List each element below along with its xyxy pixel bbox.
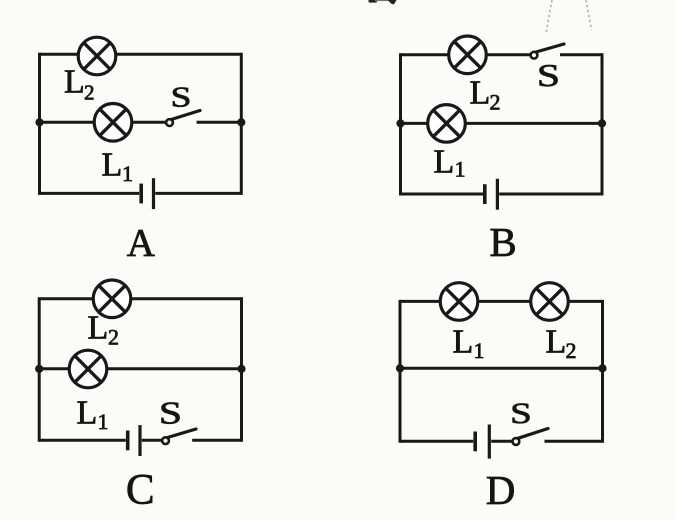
svg-text:1: 1 [98, 409, 109, 434]
switch S (A) lever [172, 111, 201, 120]
label L1 (B) [434, 144, 466, 182]
switch S (B) lever [536, 44, 564, 52]
label L1 (D) [453, 324, 485, 364]
node D-right junction [598, 364, 606, 372]
battery (B) negative plate (short) [483, 184, 487, 204]
circuit C top wire [39, 297, 241, 300]
battery (A) positive plate (long) [152, 178, 155, 209]
svg-text:S: S [171, 81, 192, 113]
svg-text:1: 1 [474, 338, 485, 363]
circuit C bottom wire mid segment [142, 439, 162, 442]
lamp L1 (C) [69, 350, 107, 388]
svg-text:B: B [489, 219, 516, 265]
lamp L2 (B) [449, 36, 487, 74]
circuit C right wire [240, 297, 243, 442]
node B-left junction [396, 119, 404, 127]
node D-left junction [396, 364, 404, 372]
circuit C bottom wire left segment [39, 439, 126, 442]
circuit A left wire [38, 53, 41, 195]
circuit A bottom wire right segment [155, 192, 241, 195]
circuit A right wire [240, 53, 243, 195]
svg-text:1: 1 [122, 161, 133, 186]
circuit C left wire [38, 297, 41, 442]
battery (C) negative plate (short) [126, 431, 130, 451]
svg-text:L: L [88, 310, 109, 347]
svg-text:2: 2 [108, 325, 119, 350]
circuit D bottom wire left segment [400, 440, 473, 443]
circuit C middle wire [39, 367, 241, 370]
circuit B top wire left segment [401, 53, 531, 56]
node C-left junction [35, 365, 43, 373]
label L2 (C) [88, 310, 120, 350]
circuit D bottom wire right segment [545, 440, 603, 443]
lamp L1 (B) [428, 105, 466, 143]
circuit C bottom wire right segment [192, 439, 241, 442]
switch S (B) contact [531, 52, 538, 59]
node C-right junction [237, 365, 245, 373]
label L2 (B) [470, 75, 501, 115]
cropped text remnant top center [369, 0, 397, 4]
svg-text:L: L [470, 75, 491, 112]
svg-text:L: L [64, 64, 85, 101]
node A-left junction [35, 118, 43, 126]
circuit A top wire [40, 53, 242, 56]
label L2 (D) [546, 324, 577, 364]
circuit B right wire [601, 53, 604, 195]
svg-text:L: L [453, 324, 474, 361]
switch S (D) lever [518, 429, 548, 439]
circuit D left wire [399, 300, 402, 443]
lamp L2 (D) [531, 283, 569, 321]
svg-text:S: S [510, 396, 532, 430]
svg-text:L: L [102, 147, 123, 184]
battery (D) negative plate (short) [473, 432, 477, 452]
svg-text:L: L [546, 324, 567, 361]
svg-text:A: A [127, 222, 155, 265]
battery (B) positive plate (long) [496, 179, 499, 210]
circuit D middle wire [400, 367, 603, 370]
circuit B top wire right segment [560, 53, 602, 56]
circuit D bottom wire mid segment [491, 440, 512, 443]
switch S (D) contact [513, 438, 520, 445]
faint pencil line top right 2 [586, 0, 592, 30]
circuit A middle wire left segment [40, 121, 167, 124]
battery (C) positive plate (long) [138, 425, 141, 456]
battery (A) negative plate (short) [139, 184, 143, 204]
svg-text:2: 2 [84, 81, 95, 105]
lamp L2 (C) [93, 280, 131, 318]
svg-text:D: D [486, 467, 516, 513]
label L1 (C) [77, 395, 109, 435]
switch S (C) contact [162, 437, 169, 444]
circuit D top wire [400, 300, 603, 303]
circuit B bottom wire left segment [401, 193, 484, 196]
svg-text:2: 2 [566, 338, 577, 363]
circuit A middle wire right segment [197, 121, 242, 124]
svg-text:2: 2 [490, 90, 501, 115]
battery (D) positive plate (long) [488, 425, 491, 459]
switch S (A) contact [166, 119, 173, 126]
lamp L1 (A) [94, 104, 132, 142]
svg-text:S: S [159, 396, 182, 431]
circuit D right wire [601, 300, 604, 443]
faint pencil line top right 1 [546, 0, 552, 33]
lamp L2 (A) [78, 37, 116, 75]
label L1 (A) [102, 147, 134, 187]
circuit B bottom wire right segment [499, 193, 602, 196]
circuit B middle wire [401, 122, 603, 125]
node A-right junction [237, 118, 245, 126]
circuit B left wire [399, 53, 402, 195]
svg-text:C: C [126, 467, 155, 514]
svg-text:S: S [537, 58, 560, 93]
lamp L1 (D) [440, 283, 478, 321]
node B-right junction [598, 119, 606, 127]
svg-text:L: L [77, 395, 98, 432]
switch S (C) lever [168, 429, 197, 438]
svg-text:1: 1 [455, 157, 466, 182]
svg-text:L: L [434, 144, 455, 181]
label L2 (A) [64, 64, 95, 105]
circuit A bottom wire left segment [40, 192, 140, 195]
